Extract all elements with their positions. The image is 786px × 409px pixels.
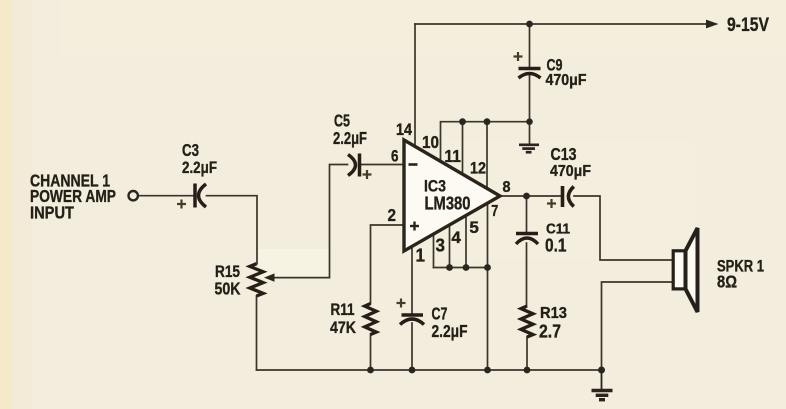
svg-text:LM380: LM380 [425,194,471,214]
svg-text:7: 7 [491,203,498,220]
svg-text:4: 4 [451,228,461,247]
svg-text:0.1: 0.1 [545,235,567,255]
wire pin 8 output to C13 [500,195,562,197]
wire C7 bottom to rail [411,323,413,370]
wire speaker bottom terminal to ground rail [602,282,674,370]
wire R11 bottom to rail [370,334,372,370]
wire: V+ rail 9-15V [415,23,707,25]
wire pin 1 to C7 top [411,246,413,313]
svg-text:470μF: 470μF [546,72,587,89]
wire pin 2 to R11 top [371,225,405,304]
wire pin 12 [486,122,488,189]
wire R15 wiper to C5 [270,165,348,278]
svg-text:INPUT: INPUT [30,202,74,222]
plus sign at pin 2 input [410,222,419,231]
R15 wiper arrow [264,273,275,281]
svg-text:470μF: 470μF [550,163,591,180]
svg-text:8Ω: 8Ω [717,272,737,292]
capacitor C11 [516,234,538,245]
wire C3 to R15 top [207,196,258,264]
C5 plus sign [363,170,372,179]
wire C9 bottom lead to ground [529,74,531,143]
wire pin 14 to V+ rail [414,24,416,146]
op-amp IC3 LM380 [404,140,500,251]
minus sign at pin 6 input [409,163,418,166]
input terminal circle [129,191,138,200]
wire pin 3 [433,234,435,267]
wire output junction to C11 [526,196,528,232]
C3 plus sign [177,200,186,209]
wire pin 7 to rail [487,203,489,370]
svg-text:5: 5 [469,218,479,237]
svg-text:14: 14 [396,121,413,139]
svg-text:11: 11 [444,146,461,166]
capacitor C13 [563,186,574,207]
svg-text:2.7: 2.7 [539,321,561,341]
arrow to 9-15V supply [706,20,719,29]
wire C5 to pin 6 [360,164,404,166]
svg-text:3: 3 [436,235,446,255]
resistor R13 [521,306,533,337]
wire C9 top lead [529,24,531,67]
wire pin 5 [465,216,467,268]
wire C11 to R13 [526,243,528,306]
wire ground rail (bottom bus) [257,369,602,371]
svg-text:2: 2 [388,205,397,225]
svg-text:C3: C3 [182,140,199,160]
speaker SPKR1 [673,228,697,312]
wire pin 4 [449,225,451,268]
svg-text:R13: R13 [540,305,567,322]
capacitor C5 [348,154,360,177]
svg-text:2.2μF: 2.2μF [182,158,217,177]
svg-text:6: 6 [391,148,399,166]
ground under C9 [519,145,539,152]
wire C13 to speaker top terminal [574,196,673,260]
wire input terminal to C3 [138,195,193,197]
svg-text:9-15V: 9-15V [727,14,769,36]
ground at bottom rail [592,370,613,400]
svg-text:R11: R11 [331,300,355,319]
svg-text:1: 1 [416,246,426,266]
svg-text:2.2μF: 2.2μF [432,321,468,341]
svg-text:10: 10 [422,132,439,152]
svg-text:2.2μF: 2.2μF [333,128,367,148]
svg-text:12: 12 [470,160,486,178]
C9 plus sign [514,52,523,61]
svg-text:47K: 47K [330,318,357,337]
potentiometer R15 [250,264,263,296]
capacitor C9 [519,69,541,79]
wire R15 bottom to ground rail [256,296,258,370]
wire R13 bottom to rail [526,337,528,370]
svg-text:50K: 50K [215,279,241,299]
capacitor C7 [400,315,424,325]
wire pin 11 [462,122,464,174]
wire bus pins 10-12 to ground [441,122,530,162]
C7 plus sign [397,299,406,308]
capacitor C3 [195,184,206,208]
wire bus pins 3-5 [434,267,488,269]
C13 plus sign [547,199,556,208]
resistor R11 [365,304,377,335]
svg-text:8: 8 [503,179,511,196]
svg-text:C13: C13 [551,144,577,164]
